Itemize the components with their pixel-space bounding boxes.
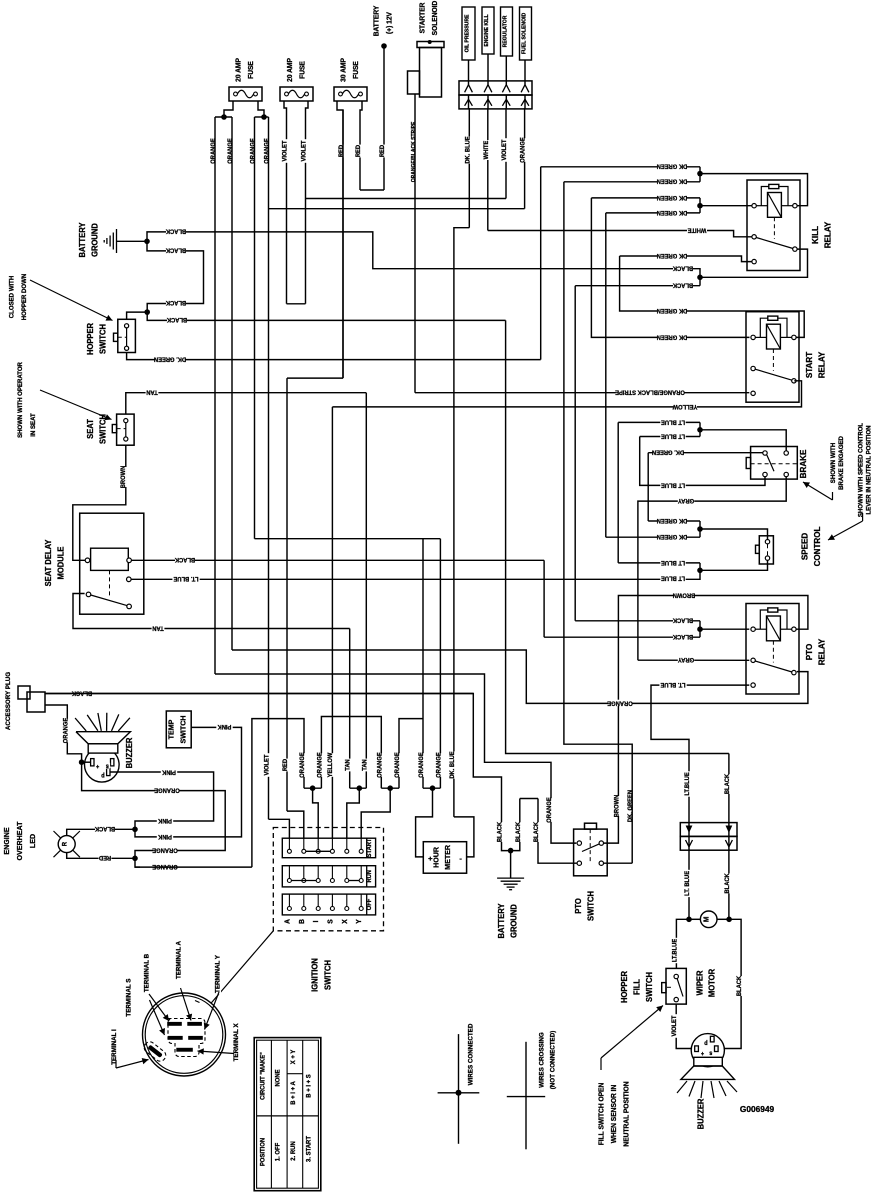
svg-text:Y: Y xyxy=(356,919,363,924)
svg-text:START: START xyxy=(366,838,373,857)
svg-text:LT. BLUE: LT. BLUE xyxy=(661,681,686,687)
svg-text:FUSE: FUSE xyxy=(248,61,255,79)
svg-text:START: START xyxy=(804,352,814,378)
svg-text:BLACK: BLACK xyxy=(165,299,186,305)
svg-text:WHITE: WHITE xyxy=(484,141,490,160)
svg-text:PINK: PINK xyxy=(161,769,175,775)
svg-text:ENGINE: ENGINE xyxy=(2,827,11,854)
svg-text:(+) 12V: (+) 12V xyxy=(386,12,393,34)
svg-text:BLACK: BLACK xyxy=(165,227,186,233)
svg-text:SOLENOID: SOLENOID xyxy=(432,1,439,36)
svg-text:ORANGE: ORANGE xyxy=(152,863,177,869)
svg-text:WIRES CROSSING: WIRES CROSSING xyxy=(538,1032,545,1087)
svg-text:20 AMP: 20 AMP xyxy=(235,58,242,82)
svg-text:FUSE: FUSE xyxy=(353,61,360,79)
svg-text:RED: RED xyxy=(356,144,362,157)
svg-text:OVERHEAT: OVERHEAT xyxy=(15,821,24,860)
svg-text:DK GREEN: DK GREEN xyxy=(657,163,688,169)
svg-text:BUZZER: BUZZER xyxy=(696,1098,705,1129)
svg-text:RELAY: RELAY xyxy=(816,351,826,378)
svg-text:LT. BLUE: LT. BLUE xyxy=(174,575,199,581)
svg-text:SEAT: SEAT xyxy=(86,419,95,439)
svg-text:BROWN: BROWN xyxy=(673,591,696,597)
svg-text:BRAKE ENGAGED: BRAKE ENGAGED xyxy=(838,436,845,490)
svg-text:STARTER: STARTER xyxy=(419,3,426,34)
svg-text:ENGINE KILL: ENGINE KILL xyxy=(484,14,490,47)
svg-text:B + I + A: B + I + A xyxy=(290,1081,297,1105)
svg-text:TERMINAL S: TERMINAL S xyxy=(125,978,132,1017)
svg-text:ORANGE: ORANGE xyxy=(317,752,323,777)
svg-text:I: I xyxy=(313,920,320,922)
svg-text:DK GREEN: DK GREEN xyxy=(657,194,688,200)
svg-text:LT BLUE: LT BLUE xyxy=(661,432,685,438)
svg-text:TERMINAL B: TERMINAL B xyxy=(143,954,150,993)
svg-text:WIPER: WIPER xyxy=(695,970,704,995)
svg-text:SWITCH: SWITCH xyxy=(586,891,595,921)
svg-text:HOPPER: HOPPER xyxy=(86,323,95,355)
svg-text:ORANGE: ORANGE xyxy=(63,718,69,743)
svg-text:BLACK: BLACK xyxy=(725,873,731,894)
svg-text:BLACK: BLACK xyxy=(737,975,743,996)
svg-text:FILL: FILL xyxy=(632,979,641,995)
svg-text:GROUND: GROUND xyxy=(509,904,518,938)
svg-text:SWITCH: SWITCH xyxy=(178,715,187,743)
svg-text:LT BLUE: LT BLUE xyxy=(661,559,685,565)
svg-text:ORANGE: ORANGE xyxy=(211,138,217,163)
svg-text:FUSE: FUSE xyxy=(299,61,306,79)
svg-text:PTO: PTO xyxy=(574,898,583,913)
svg-text:RUN: RUN xyxy=(366,870,373,882)
svg-text:BUZZER: BUZZER xyxy=(125,737,134,768)
svg-text:RED: RED xyxy=(380,144,386,157)
svg-text:GROUND: GROUND xyxy=(90,223,99,257)
svg-text:LED: LED xyxy=(28,834,37,848)
svg-text:ORANGE/BLACK STRIPE: ORANGE/BLACK STRIPE xyxy=(411,121,417,182)
svg-text:2. RUN: 2. RUN xyxy=(290,1141,297,1161)
svg-text:-: - xyxy=(459,854,462,863)
svg-text:DK. GREEN: DK. GREEN xyxy=(628,790,634,822)
svg-text:TERMINAL I: TERMINAL I xyxy=(111,1029,118,1065)
svg-text:ORANGE: ORANGE xyxy=(395,752,401,777)
svg-text:TAN: TAN xyxy=(146,388,157,394)
svg-text:SWITCH: SWITCH xyxy=(645,972,654,1002)
svg-text:DK. BLUE: DK. BLUE xyxy=(450,751,456,778)
svg-text:s: s xyxy=(709,1049,712,1055)
svg-text:BLACK: BLACK xyxy=(672,633,693,639)
svg-text:FILL SWITCH OPEN: FILL SWITCH OPEN xyxy=(598,1083,605,1146)
svg-text:ORANGE: ORANGE xyxy=(520,137,526,162)
svg-text:NEUTRAL POSITION: NEUTRAL POSITION xyxy=(623,1081,630,1146)
svg-text:HOPPER DOWN: HOPPER DOWN xyxy=(21,273,28,320)
svg-text:POSITION: POSITION xyxy=(259,1137,266,1166)
svg-text:OIL PRESSURE: OIL PRESSURE xyxy=(464,14,470,52)
svg-text:BLACK: BLACK xyxy=(725,773,731,794)
svg-text:BLACK: BLACK xyxy=(672,265,693,271)
svg-text:CLOSED WITH: CLOSED WITH xyxy=(8,275,15,318)
svg-text:ORANGE: ORANGE xyxy=(152,846,177,852)
svg-text:KILL: KILL xyxy=(810,226,820,244)
svg-text:PINK: PINK xyxy=(157,833,171,839)
svg-text:TAN: TAN xyxy=(152,624,163,630)
svg-text:S: S xyxy=(327,919,334,924)
svg-text:MOTOR: MOTOR xyxy=(707,969,716,997)
svg-text:LEVER IN NEUTRAL POSITION: LEVER IN NEUTRAL POSITION xyxy=(865,425,872,515)
svg-text:LT.BLUE: LT.BLUE xyxy=(672,939,678,962)
svg-text:RELAY: RELAY xyxy=(822,221,832,248)
svg-text:X: X xyxy=(342,919,349,924)
svg-text:YELLOW: YELLOW xyxy=(328,752,334,777)
svg-text:DK. BLUE: DK. BLUE xyxy=(465,136,471,163)
svg-text:WIRES CONNECTED: WIRES CONNECTED xyxy=(467,1023,474,1085)
svg-text:BROWN: BROWN xyxy=(121,466,127,489)
svg-text:SHOWN WITH SPEED CONTROL: SHOWN WITH SPEED CONTROL xyxy=(857,423,864,517)
svg-text:DK. GREEN: DK. GREEN xyxy=(652,449,684,455)
svg-text:BATTERY: BATTERY xyxy=(78,222,87,258)
svg-text:DK. GREEN: DK. GREEN xyxy=(154,355,186,361)
svg-text:SWITCH: SWITCH xyxy=(323,960,332,990)
svg-text:B + I + S: B + I + S xyxy=(305,1074,312,1097)
svg-text:1. OFF: 1. OFF xyxy=(274,1143,281,1162)
svg-text:R: R xyxy=(61,841,68,846)
svg-text:ORANGE: ORANGE xyxy=(264,138,270,163)
svg-text:TERMINAL X: TERMINAL X xyxy=(233,1023,240,1062)
svg-text:IN SEAT: IN SEAT xyxy=(30,413,37,437)
svg-text:DK GREEN: DK GREEN xyxy=(657,517,688,523)
svg-text:ORANGE: ORANGE xyxy=(250,138,256,163)
svg-text:BLACK: BLACK xyxy=(165,246,186,252)
svg-text:ORANGE: ORANGE xyxy=(154,786,179,792)
svg-text:SHOWN WITH OPERATOR: SHOWN WITH OPERATOR xyxy=(17,362,24,438)
svg-text:DK GREEN: DK GREEN xyxy=(657,178,688,184)
svg-text:RED: RED xyxy=(283,758,289,771)
svg-text:BLACK: BLACK xyxy=(672,282,693,288)
svg-text:OFF: OFF xyxy=(366,898,373,910)
svg-text:DK GREEN: DK GREEN xyxy=(657,252,688,258)
svg-text:BLACK: BLACK xyxy=(534,821,540,842)
svg-text:BRAKE: BRAKE xyxy=(798,449,808,478)
svg-text:SHOWN WITH: SHOWN WITH xyxy=(830,442,837,483)
svg-text:NONE: NONE xyxy=(274,1069,281,1086)
svg-text:20 AMP: 20 AMP xyxy=(287,58,294,82)
svg-text:RELAY: RELAY xyxy=(816,638,826,665)
svg-text:REGULATOR: REGULATOR xyxy=(502,16,508,48)
svg-text:p: p xyxy=(704,1039,708,1045)
svg-text:WHITE: WHITE xyxy=(688,226,707,232)
svg-text:VIOLET: VIOLET xyxy=(502,139,508,160)
svg-text:RED: RED xyxy=(339,144,345,157)
svg-text:(NOT CONNECTED): (NOT CONNECTED) xyxy=(549,1031,556,1090)
svg-text:TEMP: TEMP xyxy=(166,720,175,740)
svg-text:LT. BLUE: LT. BLUE xyxy=(685,871,691,896)
svg-text:BLACK: BLACK xyxy=(174,556,195,562)
svg-text:PTO: PTO xyxy=(804,643,814,660)
svg-text:BATTERY: BATTERY xyxy=(374,5,381,36)
svg-text:BLACK: BLACK xyxy=(94,825,115,831)
svg-text:DK GREEN: DK GREEN xyxy=(657,307,688,313)
svg-text:PINK: PINK xyxy=(217,723,231,729)
svg-text:BLACK: BLACK xyxy=(166,316,187,322)
svg-text:FUEL SOLENOID: FUEL SOLENOID xyxy=(521,13,527,54)
svg-text:X + Y: X + Y xyxy=(290,1049,297,1064)
svg-text:GRAY: GRAY xyxy=(678,497,694,503)
svg-text:p: p xyxy=(101,772,105,778)
svg-text:LT BLUE: LT BLUE xyxy=(661,481,685,487)
svg-text:BATTERY: BATTERY xyxy=(497,903,506,939)
svg-text:HOPPER: HOPPER xyxy=(620,971,629,1003)
svg-text:DK GREEN: DK GREEN xyxy=(657,333,688,339)
svg-text:CONTROL: CONTROL xyxy=(812,527,822,567)
svg-text:CIRCUIT "MAKE": CIRCUIT "MAKE" xyxy=(259,1052,266,1100)
svg-text:BROWN: BROWN xyxy=(614,795,620,818)
svg-text:VIOLET: VIOLET xyxy=(672,1015,678,1036)
svg-text:VIOLET: VIOLET xyxy=(301,140,307,161)
svg-text:DK GREEN: DK GREEN xyxy=(657,533,688,539)
svg-text:IGNITION: IGNITION xyxy=(310,958,319,992)
svg-text:SEAT DELAY: SEAT DELAY xyxy=(44,539,53,587)
svg-text:ORANGE: ORANGE xyxy=(436,752,442,777)
svg-text:ORANGE/BLACK STRIPE: ORANGE/BLACK STRIPE xyxy=(615,389,685,395)
svg-text:ORANGE: ORANGE xyxy=(547,797,553,822)
svg-text:A: A xyxy=(284,919,291,924)
svg-text:RED: RED xyxy=(98,854,111,860)
svg-text:YELLOW: YELLOW xyxy=(672,403,697,409)
svg-text:SWITCH: SWITCH xyxy=(98,324,107,354)
svg-text:MODULE: MODULE xyxy=(56,547,65,580)
svg-text:WHEN SENSOR IN: WHEN SENSOR IN xyxy=(611,1085,618,1144)
svg-text:B: B xyxy=(299,919,306,924)
svg-text:G006949: G006949 xyxy=(740,1104,775,1114)
svg-text:TERMINAL Y: TERMINAL Y xyxy=(214,954,221,993)
svg-text:BLACK: BLACK xyxy=(71,689,92,695)
svg-text:VIOLET: VIOLET xyxy=(264,754,270,775)
svg-text:ORANGE: ORANGE xyxy=(607,699,632,705)
svg-text:SPEED: SPEED xyxy=(799,533,809,560)
svg-text:GRAY: GRAY xyxy=(678,656,694,662)
svg-text:PINK: PINK xyxy=(157,817,171,823)
svg-text:TAN: TAN xyxy=(362,759,368,770)
svg-text:DK GREEN: DK GREEN xyxy=(657,209,688,215)
svg-text:TERMINAL A: TERMINAL A xyxy=(175,941,182,979)
svg-text:VIOLET: VIOLET xyxy=(282,140,288,161)
svg-text:ORANGE: ORANGE xyxy=(377,752,383,777)
svg-text:3. START: 3. START xyxy=(305,1136,312,1162)
svg-text:HOUR: HOUR xyxy=(431,846,440,868)
svg-text:BLACK: BLACK xyxy=(497,821,503,842)
svg-text:LT.BLUE: LT.BLUE xyxy=(685,772,691,795)
svg-text:TAN: TAN xyxy=(346,759,352,770)
svg-text:M: M xyxy=(703,916,710,922)
svg-text:ACCESSORY PLUG: ACCESSORY PLUG xyxy=(5,672,12,730)
svg-text:30 AMP: 30 AMP xyxy=(340,58,347,82)
svg-text:ORANGE: ORANGE xyxy=(228,138,234,163)
svg-text:LT BLUE: LT BLUE xyxy=(661,574,685,580)
svg-text:LT BLUE: LT BLUE xyxy=(661,418,685,424)
svg-text:ORANGE: ORANGE xyxy=(300,752,306,777)
svg-text:BLACK: BLACK xyxy=(672,617,693,623)
svg-text:METER: METER xyxy=(443,844,452,870)
svg-text:ORANGE: ORANGE xyxy=(419,752,425,777)
svg-text:s: s xyxy=(106,762,109,768)
svg-text:BLACK: BLACK xyxy=(516,821,522,842)
